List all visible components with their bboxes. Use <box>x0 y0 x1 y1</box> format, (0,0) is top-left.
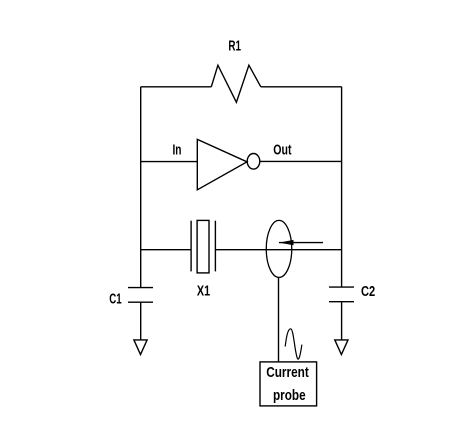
wire top left segment <box>141 86 212 88</box>
op-amp U1 inversion bubble <box>247 154 260 170</box>
svg-text:In: In <box>173 143 182 159</box>
capacitor C2 top plate <box>329 286 354 288</box>
capacitor C2 bottom plate <box>329 301 354 303</box>
current probe arrow line <box>279 242 323 244</box>
wire crystal left <box>141 249 191 251</box>
crystal X1 body <box>197 220 209 273</box>
wire C2 to ground <box>341 302 343 340</box>
resistor R1 <box>211 65 260 102</box>
current probe cable squiggle <box>285 329 302 359</box>
wire probe drop <box>278 277 280 362</box>
wire C1 to ground <box>140 302 142 340</box>
wire crystal right <box>215 249 341 251</box>
wire top right segment <box>261 86 342 88</box>
svg-text:C1: C1 <box>109 291 121 307</box>
wire right rail <box>341 87 343 287</box>
svg-text:R1: R1 <box>228 38 241 54</box>
svg-text:Current: Current <box>266 365 309 381</box>
wire inverter output <box>260 160 342 162</box>
current probe arrow head <box>279 240 294 245</box>
op-amp U1 inverter triangle <box>197 139 247 190</box>
crystal X1 left plate <box>190 221 192 272</box>
svg-text:Out: Out <box>273 143 291 159</box>
current probe box <box>260 362 317 406</box>
svg-text:probe: probe <box>273 388 306 404</box>
current probe loop ellipse <box>266 220 292 277</box>
wire inverter input <box>141 161 198 163</box>
svg-text:X1: X1 <box>197 284 210 300</box>
ground under C1 <box>134 340 147 355</box>
capacitor C1 bottom plate <box>128 301 153 303</box>
crystal X1 right plate <box>214 221 216 272</box>
wire left rail <box>140 87 142 288</box>
ground under C2 <box>335 340 348 355</box>
capacitor C1 top plate <box>128 287 153 289</box>
svg-text:C2: C2 <box>361 284 375 300</box>
